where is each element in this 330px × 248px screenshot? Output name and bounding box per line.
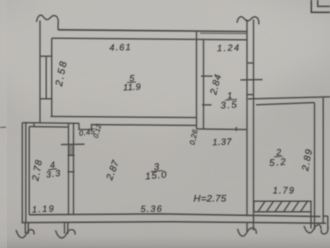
room5/room3 wall lower line left xyxy=(22,122,79,125)
bottom wall upper line xyxy=(29,214,320,217)
wall break squiggle top-right xyxy=(237,17,259,25)
room2 right inner wall xyxy=(314,103,316,217)
wall stub below squiggle xyxy=(57,23,59,30)
room5 number xyxy=(122,73,141,93)
svg-text:1.19: 1.19 xyxy=(32,203,56,214)
svg-text:3.5: 3.5 xyxy=(220,99,238,111)
window jamb lower on right wall xyxy=(247,94,254,96)
left exterior wall outer line xyxy=(39,21,41,124)
door jamb crossbar 1 xyxy=(68,154,75,156)
right edge stub horizontal xyxy=(323,215,328,217)
window W1 bottom cap xyxy=(39,98,52,100)
room2 top outer wall xyxy=(248,97,330,99)
room5|room1 wall line1 xyxy=(196,31,198,129)
room4|room3 wall line1 xyxy=(68,123,70,214)
room4 number xyxy=(44,159,61,180)
left exterior wall inner line xyxy=(51,38,53,116)
dimension tick on room4 wall xyxy=(61,143,85,145)
room5/room3 wall upper line xyxy=(51,116,197,117)
svg-text:H=2.75: H=2.75 xyxy=(193,194,226,205)
room4 top wall line xyxy=(29,126,68,129)
room2 top inner wall xyxy=(256,103,315,105)
break wave bottom-left 2 xyxy=(56,230,76,238)
room2 right outer wall xyxy=(322,97,324,223)
stray mark left edge xyxy=(0,126,6,128)
window W1 top cap xyxy=(39,55,52,57)
svg-text:5.36: 5.36 xyxy=(140,204,162,214)
right main wall line2 xyxy=(253,20,255,223)
svg-text:1.79: 1.79 xyxy=(273,185,295,195)
window jamb upper on right wall xyxy=(247,62,254,64)
room1 number xyxy=(220,90,239,112)
room4 west wall line1 xyxy=(21,123,23,223)
svg-text:3.3: 3.3 xyxy=(45,168,61,180)
room4 west wall line2 xyxy=(25,123,27,223)
top wall outer line xyxy=(58,30,247,32)
top wall inner line xyxy=(52,38,247,40)
room2 number xyxy=(268,147,288,169)
door jamb crossbar 2 xyxy=(68,171,75,173)
right edge stub vertical xyxy=(327,216,329,229)
tick on room5|room1 wall lower xyxy=(202,104,212,106)
top-right corner inner xyxy=(318,0,330,6)
room1 floor line xyxy=(197,128,248,131)
svg-text:5.2: 5.2 xyxy=(269,157,288,170)
bottom wall lower line xyxy=(22,222,327,224)
tick on right wall xyxy=(241,79,263,81)
right edge hook xyxy=(321,227,328,234)
tick on room5|room1 wall upper xyxy=(201,75,213,77)
break wave bottom-right xyxy=(304,225,321,233)
top wall second outer line (right part) xyxy=(200,32,247,34)
room1 door jamb xyxy=(235,127,237,131)
stub below left wall xyxy=(24,223,26,234)
stub below right main wall xyxy=(246,223,248,232)
svg-text:1.37: 1.37 xyxy=(212,137,232,148)
niche jog xyxy=(79,123,197,129)
svg-text:15.0: 15.0 xyxy=(145,169,168,182)
room4 west wall inner line xyxy=(28,127,30,215)
top-right corner outer xyxy=(311,0,330,12)
step connector xyxy=(33,123,35,127)
room3 number xyxy=(144,161,168,182)
break wave bottom-left 1 xyxy=(16,230,34,238)
balcony parapet hatched band xyxy=(254,201,311,212)
room5|room1 wall line2 xyxy=(203,39,205,129)
right main wall line1 xyxy=(246,20,248,217)
svg-text:4.61: 4.61 xyxy=(109,42,132,53)
room4|room3 wall line2 xyxy=(73,123,75,214)
wall pier fill xyxy=(69,145,73,156)
stub below room4 wall xyxy=(64,223,66,234)
svg-text:1.24: 1.24 xyxy=(217,42,241,53)
window W1 middle line xyxy=(45,56,47,99)
svg-text:11.9: 11.9 xyxy=(123,82,141,93)
stub below room2 right wall xyxy=(310,212,312,229)
wall break squiggle top-left xyxy=(37,15,59,23)
break wave bottom-center xyxy=(238,228,257,236)
